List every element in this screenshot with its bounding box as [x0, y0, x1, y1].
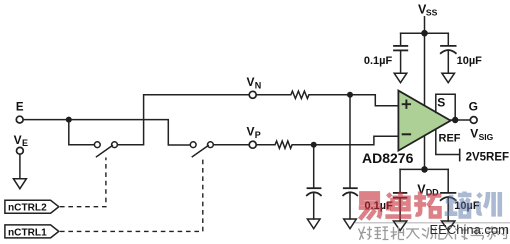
svg-text:S: S [437, 96, 445, 110]
svg-text:V: V [247, 75, 255, 89]
svg-text:P: P [255, 130, 261, 140]
svg-text:V: V [247, 125, 255, 139]
svg-text:V: V [470, 126, 478, 140]
svg-text:0.1µF: 0.1µF [364, 55, 393, 67]
svg-text:2V5REF: 2V5REF [466, 152, 509, 164]
svg-text:AD8276: AD8276 [362, 150, 414, 166]
svg-text:N: N [255, 80, 261, 90]
svg-text:nCTRL2: nCTRL2 [8, 203, 47, 214]
svg-text:EEChina.com: EEChina.com [430, 222, 509, 237]
svg-text:SS: SS [426, 8, 438, 18]
svg-text:SIG: SIG [479, 132, 494, 142]
svg-text:REF: REF [439, 132, 461, 144]
svg-text:E: E [22, 138, 28, 148]
svg-text:E: E [16, 102, 24, 114]
svg-text:10µF: 10µF [457, 55, 483, 67]
svg-text:nCTRL1: nCTRL1 [8, 227, 47, 238]
svg-text:V: V [14, 133, 22, 147]
svg-text:G: G [469, 100, 478, 114]
